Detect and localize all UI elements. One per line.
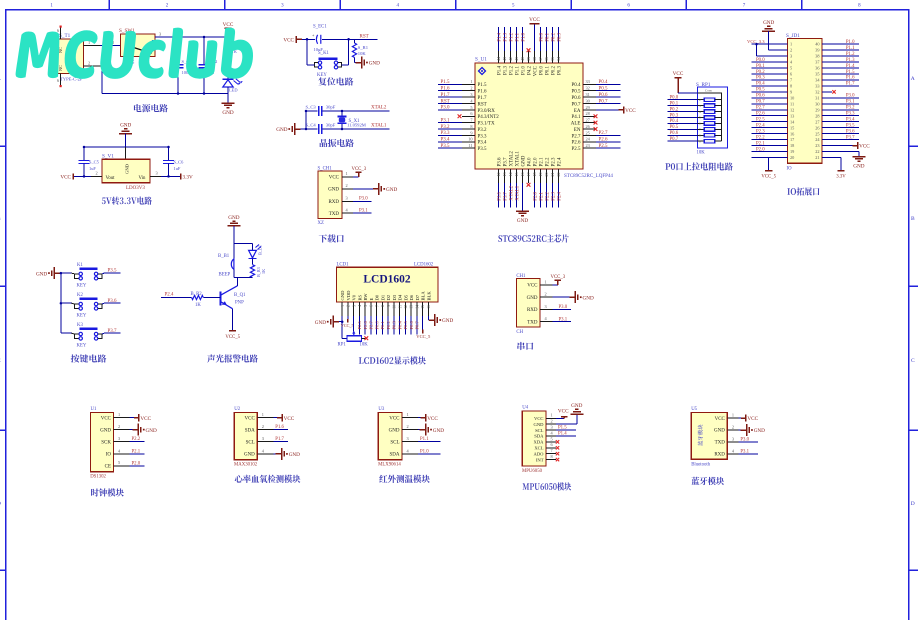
svg-text:2: 2	[118, 424, 120, 429]
svg-text:34: 34	[556, 57, 561, 61]
svg-text:2: 2	[732, 424, 734, 429]
svg-text:P0.6: P0.6	[756, 94, 765, 99]
svg-text:P3.2: P3.2	[846, 106, 855, 111]
svg-text:10K: 10K	[358, 51, 367, 56]
connector S_CH1	[318, 167, 343, 226]
IC U5 body	[691, 407, 727, 459]
svg-text:P1.6: P1.6	[441, 86, 451, 91]
caption 串口	[517, 342, 533, 350]
svg-text:P3.6: P3.6	[108, 299, 118, 304]
svg-text:TXD: TXD	[715, 441, 726, 446]
caption 心率血氧检测模块	[235, 475, 301, 483]
IC U3 MLX90614 body	[378, 407, 402, 468]
svg-text:3: 3	[407, 436, 409, 441]
svg-text:3: 3	[699, 104, 701, 108]
svg-text:P2.4: P2.4	[557, 191, 562, 200]
svg-text:2: 2	[545, 292, 547, 297]
svg-text:32: 32	[586, 86, 590, 91]
svg-text:VCC: VCC	[389, 416, 400, 421]
LCD module LCD1602显示模块	[315, 262, 454, 364]
svg-text:P3.1/TX: P3.1/TX	[478, 122, 495, 127]
svg-text:K2: K2	[77, 293, 83, 298]
svg-text:P1.5: P1.5	[846, 70, 855, 75]
svg-text:40: 40	[520, 57, 525, 61]
MCU right pin 26 EN	[574, 124, 598, 133]
svg-text:P2.5: P2.5	[599, 144, 609, 149]
heart-rate module 心率血氧检测模块	[234, 407, 300, 483]
svg-text:P0.4: P0.4	[599, 80, 609, 85]
svg-text:A: A	[911, 76, 915, 82]
caption 蓝牙模块	[691, 477, 724, 485]
wire pin1 to VCC_3	[342, 167, 367, 177]
svg-text:1: 1	[470, 79, 472, 84]
svg-text:GND: GND	[244, 453, 255, 458]
svg-text:KEY: KEY	[77, 344, 87, 349]
U1 pin 5 CE	[105, 460, 145, 469]
svg-text:RST: RST	[441, 99, 450, 104]
MCU top pin 41 P1.1	[514, 27, 520, 75]
JD1 right pin 38	[815, 52, 859, 59]
MCU left pin 4 RST	[438, 98, 487, 107]
JD1 rows 1-3 link wire	[755, 43, 758, 56]
JD1 right pin 26	[815, 123, 859, 130]
svg-text:14: 14	[415, 305, 419, 309]
RP1 resistor 7 P0.6	[668, 131, 722, 137]
MCU left pin 2 P1.6	[438, 86, 487, 95]
svg-text:GND: GND	[276, 127, 287, 133]
svg-text:RXD: RXD	[527, 308, 538, 313]
capacitor S_C6 1uF	[163, 147, 184, 176]
caption STC89C52RC主芯片	[498, 234, 568, 242]
U3 pin 1 VCC	[389, 412, 438, 422]
clock module 时钟模块	[90, 407, 157, 496]
svg-text:GND: GND	[534, 422, 545, 427]
JD1 left pin 8	[752, 82, 793, 89]
svg-text:GND: GND	[433, 428, 444, 434]
svg-text:P4.0: P4.0	[527, 157, 532, 167]
LCD pin 12 D5	[403, 294, 408, 334]
power VCC	[223, 22, 234, 37]
svg-text:P0.0: P0.0	[539, 32, 544, 41]
svg-text:15: 15	[514, 173, 519, 177]
svg-text:9: 9	[790, 89, 792, 94]
RP1 resistor 1 P0.0	[668, 96, 722, 102]
resistor network S_RP1 10K	[696, 82, 728, 156]
svg-text:3: 3	[159, 31, 161, 36]
caption 时钟模块	[91, 488, 124, 496]
MCU top pin 36 P0.1	[544, 27, 550, 75]
MCU left pin 1 P1.5	[438, 79, 487, 88]
svg-text:19: 19	[538, 173, 543, 177]
svg-text:BLA: BLA	[421, 291, 426, 301]
wire K1 to P3.5	[61, 269, 120, 274]
svg-text:4: 4	[699, 110, 701, 114]
MCU bottom pin 13 P3.7	[502, 157, 508, 207]
LCD pin 9 D2	[386, 294, 391, 334]
svg-text:17: 17	[526, 173, 531, 177]
U4 pin 5 XDA	[534, 436, 560, 444]
svg-text:2: 2	[96, 171, 98, 176]
svg-text:P1.4: P1.4	[497, 66, 502, 76]
svg-text:P1.3: P1.3	[846, 58, 855, 63]
svg-text:RST: RST	[478, 102, 487, 107]
JD1 left pin 2	[769, 48, 792, 53]
MCU top pin 43 P1.3	[502, 27, 508, 75]
svg-text:VCC: VCC	[284, 416, 295, 422]
ground GND top	[119, 123, 132, 148]
LCD BLA pin15 to VCC_5	[416, 316, 431, 339]
U1 pin 1 VCC	[101, 412, 152, 422]
resistor S_R1 10K	[352, 39, 368, 62]
RP1 resistor 8 P0.7	[668, 137, 722, 143]
svg-text:XCL: XCL	[534, 446, 543, 451]
svg-text:P2.5: P2.5	[357, 320, 362, 329]
IC U1 STC89C52RC body	[475, 57, 613, 180]
svg-text:RXD: RXD	[328, 200, 339, 205]
svg-text:P3.4: P3.4	[441, 138, 451, 143]
svg-text:32: 32	[815, 89, 819, 94]
svg-text:P0.6: P0.6	[670, 131, 679, 136]
JD1 pin22 wire to GND	[822, 152, 865, 170]
pull-up module P0口上拉电阻电路	[665, 71, 732, 170]
LCD GND pin1 wire to ground	[315, 316, 344, 339]
svg-text:11: 11	[398, 305, 402, 309]
svg-text:Com: Com	[705, 89, 712, 93]
svg-text:U4: U4	[522, 406, 528, 411]
svg-text:30: 30	[815, 101, 819, 106]
svg-text:P0.0: P0.0	[756, 58, 765, 63]
svg-text:P2.3: P2.3	[551, 157, 556, 167]
resistor R1 1K	[226, 42, 238, 58]
svg-text:12: 12	[404, 305, 408, 309]
svg-text:VCC: VCC	[427, 416, 438, 422]
svg-text:P3.3: P3.3	[478, 134, 488, 139]
svg-text:GND: GND	[853, 163, 864, 169]
svg-text:XTAL1: XTAL1	[371, 124, 387, 129]
serial module 串口	[516, 274, 594, 350]
JD1 left pin 9	[752, 88, 793, 95]
svg-text:P0.1: P0.1	[756, 64, 765, 69]
MCU top pin 38 VCC	[529, 17, 540, 76]
svg-text:1uF: 1uF	[174, 166, 181, 171]
svg-text:42: 42	[508, 57, 513, 61]
svg-text:VDD: VDD	[346, 290, 351, 301]
svg-text:18: 18	[790, 143, 794, 148]
svg-text:P0.3: P0.3	[392, 320, 397, 329]
resistor B_R3 1K	[250, 258, 265, 277]
svg-text:39: 39	[815, 48, 819, 53]
svg-text:P0.7: P0.7	[599, 99, 609, 104]
JD1 right pin 29	[815, 106, 859, 113]
svg-text:RST: RST	[360, 35, 369, 40]
svg-text:XTAL2: XTAL2	[371, 106, 387, 111]
RP1 resistor 5 P0.4	[668, 119, 722, 125]
MCU bottom pin 21 P2.3	[550, 157, 556, 207]
svg-text:GND: GND	[517, 218, 528, 224]
svg-text:3: 3	[346, 196, 348, 201]
svg-text:P1.1: P1.1	[846, 46, 855, 51]
switch S_SW1 开关	[119, 28, 155, 63]
svg-text:10: 10	[790, 95, 794, 100]
svg-text:13: 13	[790, 113, 794, 118]
svg-text:29: 29	[815, 107, 819, 112]
caption 5V转3.3V电路	[102, 197, 152, 205]
svg-text:ALE: ALE	[571, 122, 581, 127]
JD1 left pin 19	[752, 147, 795, 154]
JD1 left pin 12	[752, 106, 795, 113]
U2 pin 2 SDA	[245, 424, 288, 433]
svg-text:30: 30	[586, 98, 590, 103]
svg-text:EN: EN	[574, 128, 581, 133]
svg-text:P3.7: P3.7	[846, 135, 855, 140]
IO expansion module IO拓展口	[747, 20, 870, 196]
LCD pin 4 RS	[357, 294, 362, 334]
bottom node wire	[234, 277, 253, 279]
svg-text:P0.2: P0.2	[551, 32, 556, 41]
svg-text:GND: GND	[714, 429, 725, 434]
svg-text:8: 8	[790, 83, 792, 88]
svg-text:GND: GND	[228, 215, 239, 221]
svg-text:GND: GND	[754, 428, 765, 434]
svg-text:P1.6: P1.6	[478, 90, 488, 95]
svg-text:Vin: Vin	[139, 176, 147, 181]
JD1 right pin 25	[815, 129, 859, 136]
svg-text:P2.2: P2.2	[132, 437, 141, 442]
svg-text:B_B1: B_B1	[218, 254, 230, 259]
svg-text:10: 10	[393, 305, 397, 309]
svg-text:2: 2	[346, 183, 348, 188]
svg-text:13: 13	[502, 173, 507, 177]
JD1 right pin 30	[815, 100, 859, 107]
wire emitter to VCC_5	[225, 309, 240, 340]
svg-text:P0.7: P0.7	[756, 100, 765, 105]
svg-text:B: B	[911, 216, 915, 222]
crystal S_X1	[338, 110, 361, 131]
svg-text:P1.4: P1.4	[846, 64, 855, 69]
svg-text:5: 5	[790, 66, 792, 71]
svg-text:P2.1: P2.1	[539, 157, 544, 167]
svg-text:LCD1: LCD1	[337, 262, 350, 267]
MCU top pin 39 P4.2	[526, 48, 532, 75]
svg-text:P1.7: P1.7	[846, 82, 855, 87]
svg-text:10K: 10K	[360, 343, 369, 348]
svg-text:GND: GND	[571, 403, 582, 409]
wire K3 to P3.7	[61, 329, 120, 334]
svg-text:18: 18	[532, 173, 537, 177]
svg-text:11: 11	[790, 101, 794, 106]
svg-text:KEY: KEY	[317, 73, 327, 78]
svg-text:39: 39	[526, 57, 531, 61]
svg-text:38: 38	[815, 54, 819, 59]
keys module 按键电路	[36, 263, 120, 363]
JD1 right pin 35	[815, 70, 859, 77]
svg-text:2: 2	[262, 424, 264, 429]
U5 pin 2 GND	[714, 424, 765, 436]
svg-text:P0.1: P0.1	[545, 32, 550, 41]
download port module 下载口	[318, 167, 398, 243]
LCD VDD pin2 to VCC_5	[341, 316, 354, 328]
svg-text:P2.5: P2.5	[571, 147, 581, 152]
svg-text:VCC: VCC	[140, 416, 151, 422]
svg-text:D4: D4	[398, 294, 403, 300]
serial pin3 P3.0	[540, 304, 571, 310]
svg-text:SDA: SDA	[245, 428, 255, 433]
svg-text:S_U1: S_U1	[475, 57, 487, 63]
svg-text:5: 5	[699, 116, 701, 120]
LCD pin 2 VDD	[346, 290, 351, 316]
svg-text:D1: D1	[380, 294, 385, 300]
svg-text:P2.2: P2.2	[756, 135, 765, 140]
svg-text:VCC: VCC	[245, 416, 256, 421]
svg-text:S_K1: S_K1	[318, 51, 330, 56]
svg-text:3: 3	[790, 54, 792, 59]
LED B_D1	[249, 244, 263, 259]
svg-text:GND: GND	[442, 318, 453, 324]
svg-text:P0.5: P0.5	[571, 90, 581, 95]
svg-text:2: 2	[551, 419, 553, 424]
RP1 resistor 3 P0.2	[668, 107, 722, 113]
JD1 right pin 24	[815, 135, 859, 142]
svg-text:U3: U3	[378, 407, 384, 412]
svg-text:P1.6: P1.6	[275, 425, 284, 430]
svg-text:P0.0: P0.0	[374, 320, 379, 329]
svg-text:P0.1: P0.1	[380, 320, 385, 329]
U3 pin 2 GND	[389, 424, 445, 436]
svg-text:P2.5: P2.5	[756, 118, 765, 123]
MCU left pin 8 P3.2	[438, 124, 487, 133]
svg-text:P3.1: P3.1	[359, 209, 368, 214]
svg-text:P3.3: P3.3	[846, 112, 855, 117]
svg-text:GND: GND	[521, 155, 526, 166]
svg-text:P2.2: P2.2	[545, 191, 550, 200]
svg-text:P0.3: P0.3	[670, 113, 679, 118]
svg-text:14: 14	[508, 173, 513, 177]
svg-text:3: 3	[156, 171, 158, 176]
JD1 right pin 23	[815, 143, 819, 148]
svg-text:P4.1: P4.1	[571, 115, 581, 120]
svg-text:D: D	[911, 501, 915, 507]
JD1 left pin 4	[752, 58, 794, 65]
svg-text:P0.3: P0.3	[557, 32, 562, 41]
svg-text:1: 1	[407, 412, 409, 417]
svg-text:D5: D5	[403, 294, 408, 300]
svg-text:D3: D3	[392, 294, 397, 300]
svg-text:VCC: VCC	[223, 22, 234, 28]
ground GND	[222, 94, 235, 116]
MCU left pin 5 P3.0/RX	[438, 105, 495, 114]
bluetooth module 蓝牙模块	[691, 407, 765, 485]
svg-text:U5: U5	[691, 407, 697, 412]
svg-text:P3.6: P3.6	[497, 157, 502, 167]
svg-text:16: 16	[427, 305, 431, 309]
MCU bottom pin 14 XTAL2	[508, 151, 514, 208]
svg-text:P1.2: P1.2	[509, 32, 514, 41]
svg-text:3.3V: 3.3V	[836, 175, 846, 180]
svg-text:16: 16	[520, 173, 525, 177]
svg-text:7: 7	[699, 128, 701, 132]
svg-text:P0.3: P0.3	[557, 66, 562, 76]
svg-text:P0.6: P0.6	[599, 93, 609, 98]
svg-text:P2.0: P2.0	[756, 147, 765, 152]
power VCC_5 bottom left	[761, 158, 776, 180]
svg-text:23: 23	[586, 143, 590, 148]
caption 按键电路	[71, 354, 107, 362]
svg-text:15: 15	[790, 125, 794, 130]
svg-text:10: 10	[468, 137, 472, 142]
svg-text:1: 1	[346, 171, 348, 176]
svg-text:P2.2: P2.2	[545, 157, 550, 167]
MCU bottom pin 17 P4.0	[526, 157, 532, 187]
capacitor S_C2 104	[199, 36, 218, 95]
svg-text:VCC_5: VCC_5	[341, 323, 354, 328]
wire pin2 to GND	[342, 183, 397, 195]
svg-text:GND: GND	[527, 296, 538, 301]
svg-text:D6: D6	[409, 294, 414, 300]
svg-text:MLX90614: MLX90614	[378, 463, 401, 468]
svg-text:KEY: KEY	[77, 314, 87, 319]
key bus wire	[60, 272, 63, 333]
svg-text:33: 33	[815, 83, 819, 88]
svg-text:GND: GND	[100, 428, 111, 433]
svg-text:P3.1: P3.1	[559, 317, 568, 322]
U4 pin 6 XCL	[534, 442, 559, 450]
svg-text:3: 3	[262, 436, 264, 441]
svg-text:P3.2: P3.2	[478, 128, 488, 133]
svg-text:P1.0: P1.0	[420, 449, 429, 454]
svg-text:1: 1	[262, 412, 264, 417]
power 3.3V right	[181, 173, 193, 180]
svg-text:B_R2: B_R2	[191, 292, 203, 297]
svg-text:VCC: VCC	[673, 71, 684, 77]
svg-text:P1.0: P1.0	[521, 32, 526, 41]
svg-text:31: 31	[815, 95, 819, 100]
svg-text:20: 20	[544, 173, 549, 177]
svg-text:Bluetooth: Bluetooth	[691, 463, 711, 468]
svg-text:VCC: VCC	[283, 37, 294, 43]
svg-text:P3.5: P3.5	[846, 123, 855, 128]
svg-text:VCC: VCC	[747, 416, 758, 422]
resistor B_R2 1K and net P2.4	[161, 292, 221, 308]
svg-text:U1: U1	[91, 407, 97, 412]
svg-text:P3.0: P3.0	[441, 106, 451, 111]
svg-text:28: 28	[586, 111, 590, 116]
svg-text:P3.7: P3.7	[108, 329, 118, 334]
left vertical wire	[305, 110, 308, 131]
svg-text:5: 5	[470, 105, 472, 110]
caption MPU6050模块	[523, 482, 572, 490]
svg-text:VCC: VCC	[533, 65, 538, 76]
svg-text:9: 9	[470, 130, 472, 135]
svg-text:P0.4: P0.4	[756, 82, 765, 87]
U5 pin 4 RXD	[714, 448, 758, 457]
svg-text:8: 8	[551, 454, 553, 459]
LCD pin 8 D1	[380, 294, 385, 334]
svg-text:P0.7: P0.7	[670, 137, 679, 142]
wire K2 to P3.6	[61, 299, 120, 304]
capacitor S_C1 100uF	[173, 36, 194, 95]
svg-text:P3.0: P3.0	[359, 197, 368, 202]
svg-text:25: 25	[586, 130, 590, 135]
svg-text:P0.2: P0.2	[670, 107, 679, 112]
svg-text:8: 8	[381, 305, 385, 307]
MCU left pin 7 P3.1/TX	[438, 118, 495, 127]
MCU top pin 35 P0.2	[550, 27, 556, 75]
svg-text:LCD1602: LCD1602	[414, 262, 434, 267]
svg-text:21: 21	[550, 173, 555, 177]
U4 pin 4 SDA	[534, 430, 576, 438]
svg-text:P3.0/RX: P3.0/RX	[478, 109, 496, 114]
svg-text:8: 8	[470, 124, 472, 129]
